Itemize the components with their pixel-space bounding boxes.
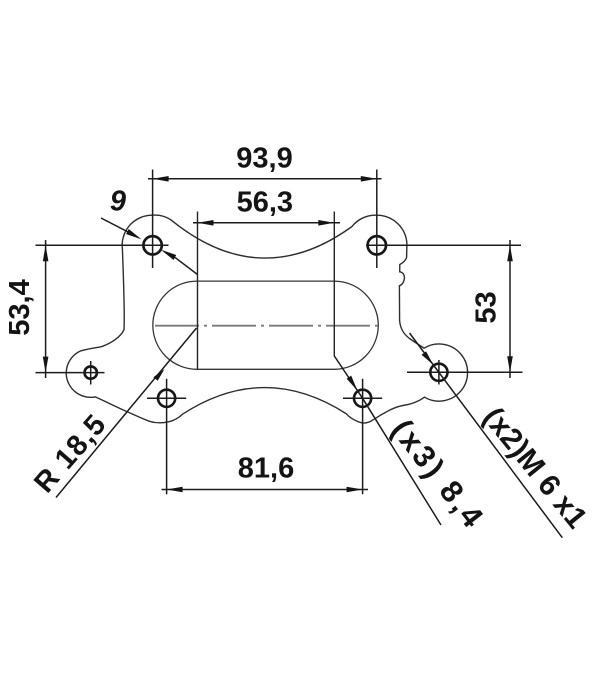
svg-text:56,3: 56,3 bbox=[237, 187, 293, 219]
dimension 53,4 line bbox=[45, 240, 47, 378]
leader R 18,5 bbox=[56, 328, 197, 498]
svg-text:93,9: 93,9 bbox=[236, 143, 292, 175]
rectangle right extension line bbox=[333, 212, 335, 356]
hole bottom-left bbox=[158, 390, 175, 407]
hole bottom-right crosshair bbox=[343, 397, 382, 399]
svg-text:81,6: 81,6 bbox=[238, 453, 294, 485]
hole top-right crosshair bbox=[366, 244, 521, 246]
leader 9 bbox=[101, 218, 128, 232]
hole left bbox=[85, 366, 97, 378]
dimension 56,3 line bbox=[193, 222, 340, 224]
dimension 53 line bbox=[509, 240, 511, 378]
dimension 93,9 line bbox=[148, 178, 382, 180]
dimension 81,6 line bbox=[162, 489, 369, 491]
plate outline bbox=[66, 215, 467, 423]
leader (x3) 8,4 bbox=[334, 356, 441, 526]
svg-text:9: 9 bbox=[110, 186, 126, 218]
svg-text:53,4: 53,4 bbox=[4, 279, 36, 335]
hole top-right bbox=[368, 236, 386, 254]
hole right crosshair bbox=[407, 371, 523, 373]
leader (x2)M 6 x1 bbox=[410, 333, 563, 538]
hole right bbox=[430, 364, 447, 381]
hole bottom-right bbox=[354, 390, 371, 407]
svg-text:(x2)M 6 x1: (x2)M 6 x1 bbox=[476, 401, 593, 535]
hole top-left crosshair bbox=[36, 244, 169, 246]
svg-text:53: 53 bbox=[471, 291, 503, 323]
centerline (dash-dot) bbox=[155, 325, 382, 327]
hole left crosshair bbox=[36, 372, 105, 374]
obround (stadium) slot bbox=[153, 281, 378, 369]
rectangle left extension line bbox=[197, 212, 199, 370]
hole bottom-left crosshair bbox=[147, 397, 186, 399]
hole top-left bbox=[143, 236, 161, 254]
svg-text:(x3) 8,4: (x3) 8,4 bbox=[385, 413, 492, 536]
svg-text:R 18,5: R 18,5 bbox=[28, 408, 113, 499]
